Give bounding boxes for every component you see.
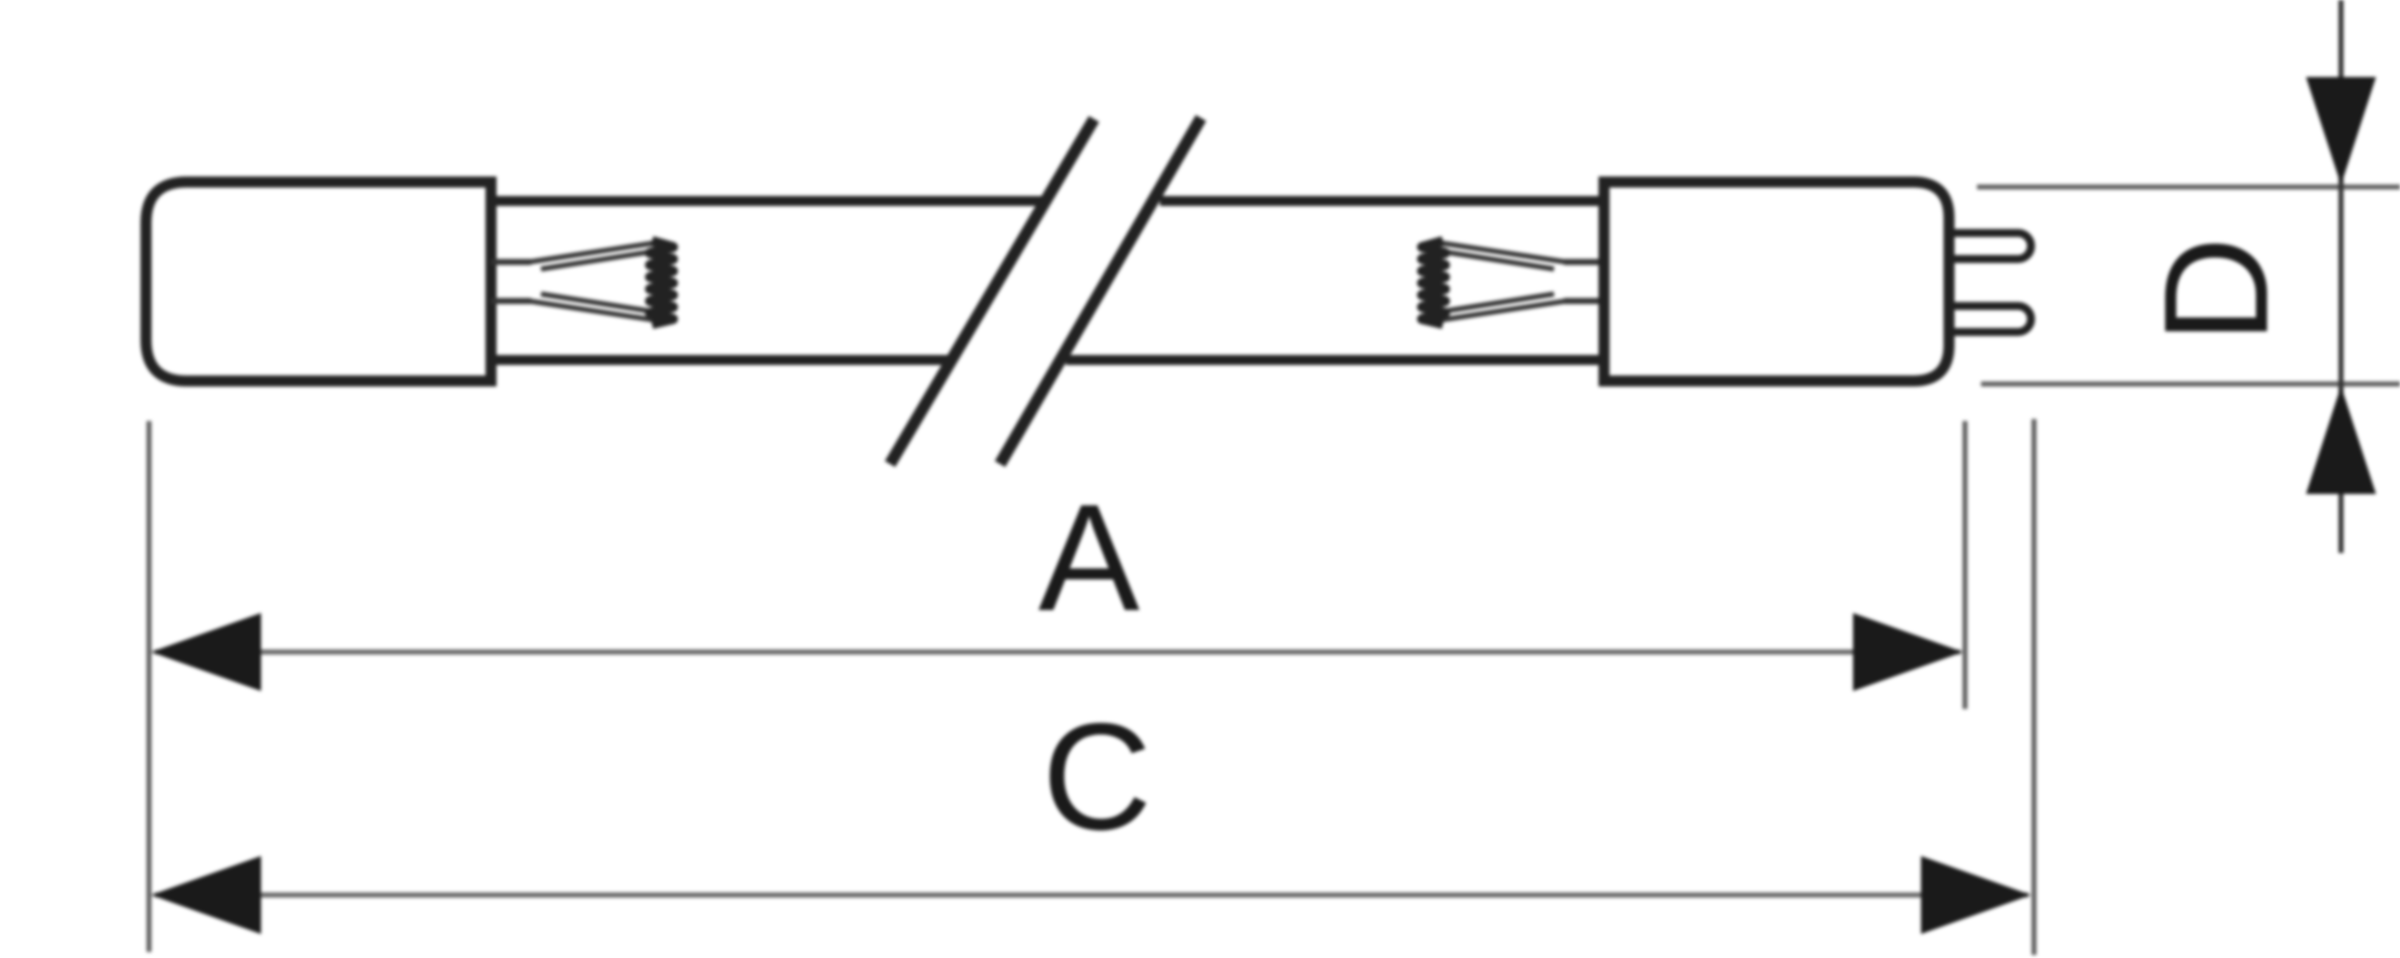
extension line A right [1963,421,1968,709]
arrowhead D bottom [2306,386,2376,494]
arrowhead C right [1921,856,2031,934]
right electrode lead bottom [1564,298,1604,304]
pin top [1952,233,2031,259]
extension line left (A/C) [147,421,152,952]
break line 2 [1000,118,1201,464]
right cap [1604,182,1949,381]
break line 1 [890,119,1094,464]
left electrode lead bottom [491,298,531,304]
tube top wall right segment [1160,196,1608,206]
left cap [146,182,491,381]
arrowhead D top [2306,77,2376,185]
svg-text:D: D [2134,237,2299,344]
dimension line D vertical [2339,0,2344,553]
left electrode coil [650,241,673,324]
extension line D top [1977,185,2400,190]
tube top wall left segment [491,196,1043,206]
left electrode lead top [491,259,531,265]
svg-text:C: C [1042,692,1152,862]
tube bottom wall left segment [491,355,949,365]
extension line C right [2032,419,2037,955]
arrowhead A right [1853,613,1963,691]
right electrode lead top [1564,259,1604,265]
arrowhead C left [151,856,261,934]
dimension line C [155,893,2028,898]
pin bottom [1952,306,2031,332]
dimension line A [155,650,1960,655]
right electrode wedge [1439,243,1566,320]
left electrode wedge [529,243,656,320]
tube bottom wall right segment [1066,355,1608,365]
right electrode coil [1422,241,1445,324]
extension line D bottom [1981,382,2400,387]
arrowhead A left [151,613,261,691]
svg-text:A: A [1038,473,1140,643]
